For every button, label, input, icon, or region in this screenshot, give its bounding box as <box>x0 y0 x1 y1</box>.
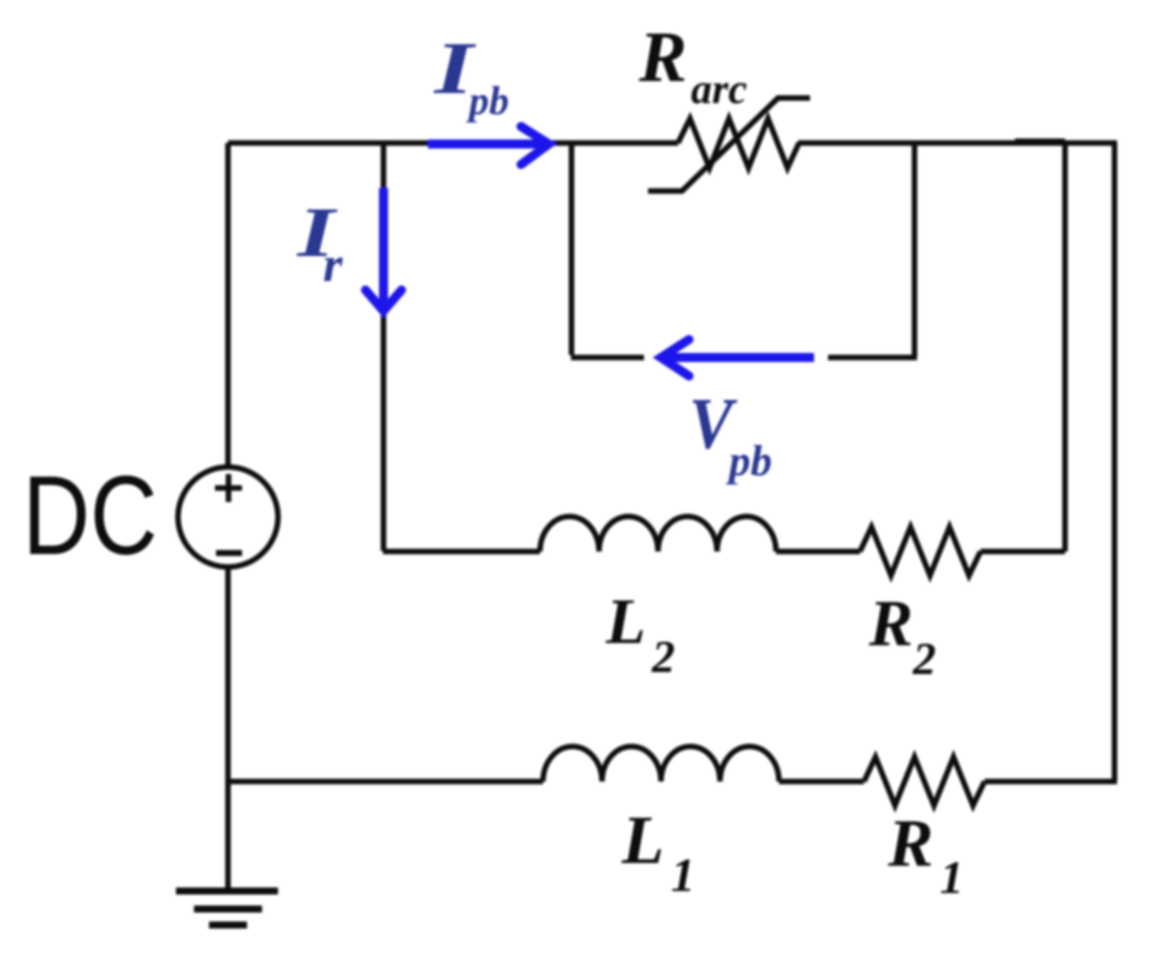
wire far right vertical <box>1112 143 1118 782</box>
svg-text:2: 2 <box>651 631 675 682</box>
resistor R1 <box>864 757 985 806</box>
svg-text:L: L <box>605 586 646 658</box>
wire Vpb loop bottom-left stub <box>571 355 644 361</box>
svg-text:DC: DC <box>23 453 158 578</box>
wire R1 to far right vertical <box>985 779 1118 785</box>
wire top horizontal <box>228 140 678 146</box>
svg-text:pb: pb <box>466 78 509 123</box>
wire right vertical R2 to top <box>1062 143 1068 552</box>
wire L2 to R2 <box>776 549 860 555</box>
wire left vertical (source bottom to ground) <box>225 568 231 891</box>
resistor R2 <box>860 527 981 576</box>
svg-text:arc: arc <box>691 67 747 113</box>
wire L2 row left <box>383 549 540 555</box>
minus sign of DC source <box>216 550 242 556</box>
svg-text:1: 1 <box>671 849 695 902</box>
wire Ir branch vertical <box>381 143 387 551</box>
resistor Rarc zigzag <box>678 119 799 169</box>
svg-text:1: 1 <box>940 852 964 904</box>
wire Vpb loop right vertical <box>912 143 918 358</box>
wire R2 to right vertical <box>981 549 1066 555</box>
wire L1 row left <box>228 779 543 785</box>
Rarc adjust arrow diagonal <box>648 98 810 191</box>
inductor L2 <box>540 517 776 552</box>
inductor L1 <box>543 747 779 782</box>
svg-text:L: L <box>621 802 664 878</box>
wire L1 to R1 <box>779 779 864 785</box>
voltage arrow Vpb <box>665 353 814 362</box>
svg-text:R: R <box>868 587 913 660</box>
svg-text:r: r <box>323 236 343 292</box>
svg-text:pb: pb <box>725 438 772 485</box>
current arrow Ir <box>379 188 388 307</box>
plus sign of DC source <box>215 474 242 502</box>
wire top horizontal right of Rarc <box>798 140 1117 146</box>
svg-text:2: 2 <box>912 633 936 684</box>
wire left vertical (source top) <box>225 143 231 466</box>
source DC V1 circle <box>178 467 278 567</box>
svg-text:R: R <box>638 17 687 97</box>
wire top-right overlap stub <box>1015 139 1065 143</box>
wire Vpb loop bottom-right <box>828 355 917 361</box>
current arrow Ipb <box>428 140 545 149</box>
svg-text:R: R <box>887 805 933 881</box>
wire Vpb loop left vertical <box>569 143 575 355</box>
ground <box>176 888 278 895</box>
